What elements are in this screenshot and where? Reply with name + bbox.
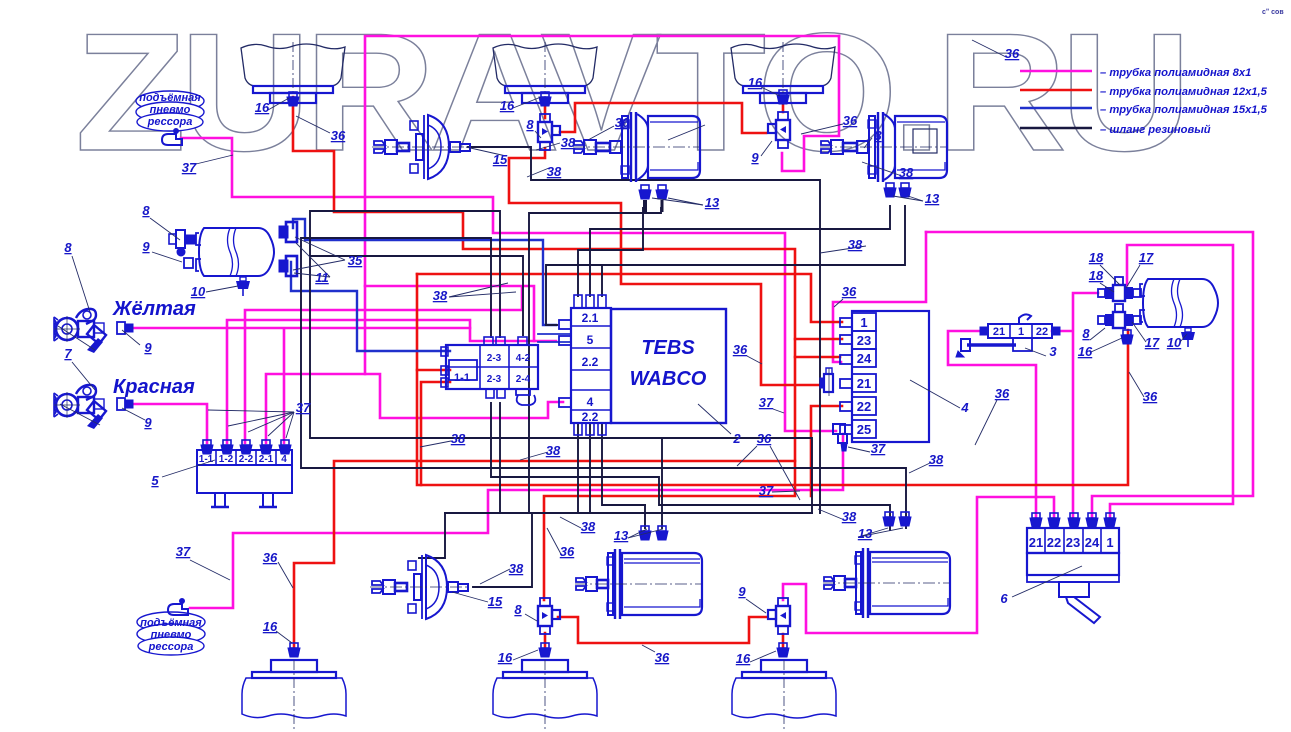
fitting 16 bottom-middle	[539, 643, 551, 657]
svg-text:2.2: 2.2	[582, 355, 599, 369]
fitting 9 at Zheltaya	[117, 322, 133, 334]
wire: magenta tee9 bottom to block6 port 22	[783, 497, 1054, 633]
svg-text:38: 38	[433, 288, 448, 303]
svg-text:35: 35	[348, 253, 363, 268]
tee fitting 9 bottom	[768, 598, 790, 634]
cross fittings 17/18 at right tank	[1098, 277, 1141, 301]
svg-text:18: 18	[1089, 268, 1104, 283]
svg-text:рессора: рессора	[148, 641, 194, 653]
wire: magenta trunk top rectangle	[365, 36, 839, 374]
block 6 (bottom right)	[1027, 528, 1119, 623]
wire: black column top port3 stub	[601, 265, 603, 296]
svg-text:пневмо: пневмо	[150, 104, 191, 116]
air bellows top right	[731, 42, 835, 105]
svg-text:WABCO: WABCO	[630, 368, 707, 390]
svg-text:8: 8	[142, 203, 150, 218]
legend red	[1020, 89, 1092, 92]
wire: black hose valve p1 to chamberA' and chamberB' p1	[491, 403, 890, 530]
chamber A' ports 13	[639, 526, 651, 540]
wire: black hose valve block p1 to chamberB'	[301, 238, 906, 528]
svg-text:38: 38	[547, 164, 562, 179]
wire: black hose bottom booster	[473, 513, 532, 587]
svg-text:10: 10	[1167, 335, 1182, 350]
svg-text:2.1: 2.1	[582, 311, 599, 325]
svg-text:2.2: 2.2	[582, 410, 599, 424]
wire: red tee8 top to tee9 top	[560, 103, 766, 133]
svg-text:16: 16	[255, 100, 270, 115]
svg-text:7: 7	[64, 346, 72, 361]
svg-text:17: 17	[1139, 250, 1154, 265]
spring brake chamber B' bottom	[823, 548, 950, 618]
wire: red stub to port 23	[795, 338, 842, 341]
wire: black hose chamberA-prime p2 from long run	[661, 438, 663, 528]
wire: black hose valve block p3	[310, 256, 523, 335]
wire: red branch to bottom-left bellows	[294, 461, 795, 648]
tee fitting 9 top	[768, 112, 790, 148]
block 5 distribution	[197, 450, 292, 507]
wire: black hose chamberB p2 to column left	[546, 206, 905, 325]
tee at port 21	[820, 368, 833, 396]
svg-text:9: 9	[144, 415, 152, 430]
svg-text:21: 21	[993, 326, 1005, 338]
wire: black hose long run y513	[445, 512, 812, 514]
svg-text:36: 36	[757, 431, 772, 446]
chamber B' ports 13	[883, 512, 895, 526]
svg-text:2-2: 2-2	[239, 454, 254, 465]
wire: red trunk to port 1	[417, 274, 842, 322]
svg-text:сʺ сов: сʺ сов	[1262, 9, 1284, 16]
svg-text:5: 5	[151, 473, 159, 488]
svg-text:37: 37	[182, 160, 197, 175]
svg-text:38: 38	[848, 237, 863, 252]
svg-text:24: 24	[1085, 535, 1100, 550]
svg-text:11: 11	[315, 270, 329, 285]
TEBS connection column	[559, 295, 611, 435]
coupling head Krasnaya	[54, 385, 106, 429]
chamber A ports 13	[639, 185, 651, 199]
svg-text:2-3: 2-3	[487, 353, 502, 364]
svg-text:9: 9	[751, 150, 759, 165]
svg-text:4: 4	[960, 400, 969, 415]
svg-text:1: 1	[860, 315, 867, 330]
svg-text:38: 38	[842, 509, 857, 524]
air bellows top middle	[493, 42, 597, 105]
svg-text:37: 37	[759, 483, 774, 498]
svg-text:16: 16	[1078, 344, 1093, 359]
svg-text:2-4: 2-4	[516, 374, 531, 385]
wire: magenta valve3 port22 to tank tee and block6 port 23	[1052, 293, 1098, 520]
svg-text:2-3: 2-3	[487, 374, 502, 385]
wire: red trunk down and right to rear tank tee	[417, 274, 1128, 485]
svg-text:38: 38	[451, 431, 466, 446]
svg-text:16: 16	[748, 75, 763, 90]
svg-text:36: 36	[560, 544, 575, 559]
svg-text:37: 37	[871, 441, 886, 456]
svg-text:– шланг резиновый: – шланг резиновый	[1100, 124, 1211, 136]
svg-text:36: 36	[331, 128, 346, 143]
wire: red tee8 bottom to tee9 bottom	[558, 617, 766, 643]
coupling head Zheltaya	[54, 309, 106, 353]
wire: red tee stubs bottom bellows	[545, 633, 783, 648]
air bellows top left	[241, 42, 345, 105]
svg-text:24: 24	[857, 351, 872, 366]
wire: red stub to port 24	[795, 356, 840, 359]
fitting 16 top-middle	[539, 92, 551, 106]
fitting 16 top-left	[287, 92, 299, 106]
svg-text:подъёмная: подъёмная	[139, 92, 201, 104]
svg-text:36: 36	[843, 113, 858, 128]
svg-text:8: 8	[526, 117, 534, 132]
wire: blue connectors valve block to column	[538, 334, 571, 342]
svg-text:38: 38	[509, 561, 524, 576]
valve 3 (levelling)	[956, 314, 1060, 357]
wire: magenta branch to column port 5	[365, 286, 556, 341]
svg-text:9: 9	[738, 584, 746, 599]
wire: red top right bellows to tee9	[782, 97, 785, 112]
legend blue	[1020, 107, 1092, 109]
wire: black column bottom port stubs	[578, 423, 590, 513]
legend black	[1020, 127, 1092, 129]
wire: magenta outer loop right to block6 port 24	[926, 232, 1253, 520]
brake booster 15 bottom	[370, 555, 469, 619]
svg-text:6: 6	[1000, 591, 1008, 606]
svg-text:10: 10	[191, 284, 206, 299]
wire: red top middle bellows to tee8	[544, 100, 547, 118]
wire: black hose chamberB p1 to column	[590, 206, 890, 296]
chamber B ports 13	[884, 183, 896, 197]
svg-text:36: 36	[995, 386, 1010, 401]
tee fitting 8 bottom	[538, 598, 560, 634]
wire: magenta line port 4 (from block 5 port)	[266, 374, 563, 443]
svg-text:рессора: рессора	[147, 116, 193, 128]
svg-text:16: 16	[500, 98, 515, 113]
svg-text:Жёлтая: Жёлтая	[112, 298, 196, 320]
svg-text:– трубка полиамидная 12х1,5: – трубка полиамидная 12х1,5	[1100, 86, 1268, 98]
svg-text:9: 9	[142, 239, 150, 254]
wire: magenta line lift air spring (top left) to port 25	[181, 138, 836, 431]
svg-text:22: 22	[1036, 326, 1048, 338]
fitting 16 top-right	[777, 90, 789, 104]
svg-text:36: 36	[842, 284, 857, 299]
svg-text:– трубка полиамидная 8х1: – трубка полиамидная 8х1	[1100, 67, 1251, 79]
svg-text:2-1: 2-1	[259, 454, 274, 465]
svg-text:2: 2	[732, 431, 741, 446]
svg-text:13: 13	[705, 195, 720, 210]
svg-text:36: 36	[263, 550, 278, 565]
svg-text:21: 21	[1029, 535, 1043, 550]
svg-text:38: 38	[561, 135, 576, 150]
svg-text:36: 36	[733, 342, 748, 357]
svg-text:8: 8	[1082, 326, 1090, 341]
svg-text:4: 4	[587, 395, 594, 409]
svg-text:18: 18	[1089, 250, 1104, 265]
svg-text:1-1: 1-1	[199, 454, 214, 465]
svg-text:4-2: 4-2	[516, 353, 531, 364]
fitting 9 at Krasnaya	[117, 398, 133, 410]
svg-text:3: 3	[1049, 344, 1057, 359]
air tank right	[1140, 279, 1218, 327]
svg-text:22: 22	[1047, 535, 1061, 550]
wire: black hose valve p2 down	[499, 403, 501, 513]
svg-text:13: 13	[925, 191, 940, 206]
svg-text:38: 38	[546, 443, 561, 458]
wire: magenta inner loop right to block6 port 1	[1110, 245, 1233, 520]
svg-text:37: 37	[176, 544, 191, 559]
svg-text:38: 38	[929, 452, 944, 467]
wire: black hose column p3 join	[602, 423, 645, 505]
svg-text:36: 36	[655, 650, 670, 665]
fitting 16 bottom-left	[288, 643, 300, 657]
block 6 top ports	[1030, 513, 1042, 527]
spring brake chamber A top	[573, 112, 700, 182]
wire: magenta line port 25 to bottom-left lift coupling	[190, 434, 843, 608]
svg-text:8: 8	[874, 128, 882, 143]
svg-text:23: 23	[1066, 535, 1080, 550]
wire: magenta right leg to tee 9 top	[782, 36, 839, 171]
wire: magenta line from block5 port 3	[245, 287, 522, 443]
svg-text:38: 38	[899, 165, 914, 180]
wire: magenta line from coupling Zheltaya	[130, 328, 470, 443]
svg-text:38: 38	[581, 519, 596, 534]
wire: black hose valve block p2 long run	[310, 211, 812, 513]
svg-text:подъёмная: подъёмная	[140, 617, 202, 629]
svg-text:1: 1	[1018, 326, 1024, 338]
brake booster 15 top	[372, 115, 471, 179]
svg-text:Красная: Красная	[113, 376, 195, 398]
svg-text:36: 36	[1005, 46, 1020, 61]
svg-text:25: 25	[857, 422, 871, 437]
pilot valve block (1-1 / 2-3 / 2-4)	[441, 337, 538, 405]
wire: red stubs to pilot valve block left ports	[417, 370, 450, 485]
lift axle cloud bottom-left	[137, 612, 205, 655]
legend magenta	[1020, 70, 1092, 73]
svg-text:13: 13	[858, 526, 873, 541]
port block 4 (right of TEBS)	[840, 311, 929, 442]
svg-text:22: 22	[857, 399, 871, 414]
elbow 11 top	[279, 222, 297, 242]
coupling at top-left cloud	[162, 129, 182, 146]
svg-text:пневмо: пневмо	[151, 629, 192, 641]
spring brake chamber B top	[820, 112, 947, 182]
wire: red main supply from top-left bellows	[293, 97, 795, 600]
elbow at port 25	[833, 424, 847, 451]
wire: magenta line from block5 port 2	[227, 320, 534, 443]
svg-text:37: 37	[759, 395, 774, 410]
air bellows bottom left	[242, 660, 346, 730]
svg-text:– трубка полиамидная 15х1,5: – трубка полиамидная 15х1,5	[1100, 104, 1268, 116]
svg-text:36: 36	[615, 115, 630, 130]
svg-text:13: 13	[614, 528, 629, 543]
fitting 16 bottom-right	[777, 643, 789, 657]
wire: black hose chamberA p1 to column	[578, 208, 643, 296]
spring brake chamber A' bottom	[575, 549, 702, 619]
svg-text:TEBS: TEBS	[641, 337, 695, 359]
svg-text:16: 16	[498, 650, 513, 665]
air bellows bottom middle	[493, 660, 597, 730]
wire: magenta valve3 port21 to block6 port 21	[948, 331, 1036, 520]
svg-text:36: 36	[1143, 389, 1158, 404]
coupling at bottom-left cloud	[168, 599, 188, 616]
valve 8/9 on left tank	[169, 230, 196, 268]
svg-text:4: 4	[281, 454, 287, 465]
wire: black hose booster top	[468, 147, 820, 513]
air bellows bottom right	[732, 660, 836, 730]
svg-text:1-2: 1-2	[219, 454, 234, 465]
svg-text:15: 15	[493, 152, 508, 167]
svg-text:21: 21	[857, 376, 871, 391]
svg-text:1: 1	[1106, 535, 1113, 550]
svg-text:16: 16	[736, 651, 751, 666]
wire: blue tank top elbow to column left fitting	[293, 219, 556, 325]
svg-text:16: 16	[263, 619, 278, 634]
svg-text:37: 37	[296, 400, 311, 415]
wire: black hose to booster top bolt	[419, 513, 445, 558]
elbow 11 bottom	[279, 256, 297, 276]
svg-text:8: 8	[514, 602, 522, 617]
svg-text:1-1: 1-1	[454, 372, 470, 384]
air tank left (11)	[196, 228, 274, 276]
svg-text:5: 5	[587, 333, 594, 347]
tee fitting 8 top	[538, 114, 560, 150]
wire: black hose chamberA p2 long run	[529, 208, 661, 513]
svg-text:15: 15	[488, 594, 503, 609]
TEBS WABCO unit 2	[611, 309, 726, 423]
wire: red port 22 drop	[811, 406, 842, 496]
pointer lines	[268, 98, 289, 110]
wire: magenta line from coupling Krasnaya	[133, 404, 207, 443]
drain valve 10 right	[1181, 328, 1195, 347]
wire: red tee8 down to column port 21	[509, 148, 820, 385]
lift axle cloud top-left	[136, 91, 204, 131]
wire: blue tank bottom elbow to valve block	[291, 262, 450, 351]
svg-text:17: 17	[1145, 335, 1160, 350]
drain valve 10 left tank	[236, 277, 250, 296]
svg-text:23: 23	[857, 333, 871, 348]
svg-text:9: 9	[144, 340, 152, 355]
svg-text:8: 8	[64, 240, 72, 255]
wire: magenta line to column port 24	[833, 232, 926, 362]
block 5 top ports	[201, 440, 213, 454]
